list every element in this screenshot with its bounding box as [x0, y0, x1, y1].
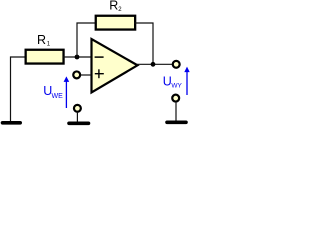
svg-text:WE: WE — [52, 93, 64, 100]
wire: + input from terminal — [80, 74, 91, 76]
svg-text:WY: WY — [171, 83, 182, 90]
svg-text:2: 2 — [118, 7, 122, 13]
svg-text:U: U — [163, 74, 172, 88]
resistor R1 — [26, 50, 64, 64]
wire: stem output bottom terminal to ground — [175, 102, 177, 121]
terminal: output top — [173, 61, 180, 68]
wire: output — [137, 63, 173, 65]
op-amp minus sign — [95, 56, 104, 58]
wire: stem bottom input terminal to ground — [76, 112, 78, 122]
wire: R2 right, down to output junction — [134, 23, 153, 64]
op-amp plus sign — [95, 73, 104, 75]
ground (right) — [167, 121, 186, 125]
ground (left) — [3, 121, 21, 125]
resistor R2 — [96, 16, 135, 30]
svg-text:1: 1 — [47, 42, 51, 48]
terminal: input bottom — [74, 105, 81, 112]
wire: junction up and to R2 left — [77, 23, 96, 58]
svg-text:R: R — [37, 33, 46, 47]
wire: left input L from R1 down to ground — [11, 57, 27, 122]
ground (middle) — [69, 122, 89, 126]
arrow U_WE — [65, 81, 67, 108]
node: junction at output — [151, 62, 156, 67]
arrow U_WY — [186, 72, 188, 96]
svg-text:R: R — [109, 0, 118, 13]
terminal: input top — [73, 71, 80, 78]
op-amp U1 — [92, 39, 138, 93]
node: junction at inverting input — [75, 55, 80, 60]
wire: R1 to inverting input — [63, 56, 91, 58]
terminal: output bottom — [172, 95, 179, 102]
